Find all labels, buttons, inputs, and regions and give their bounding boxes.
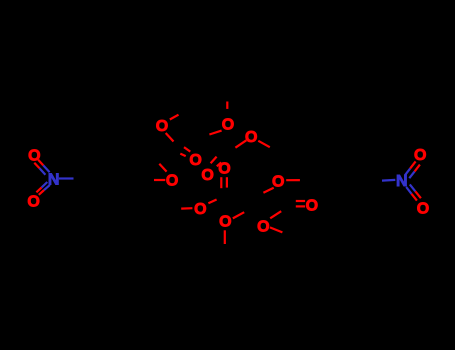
wire N1=O14 line2 blue half: [44, 185, 50, 190]
svg-text:O: O: [219, 214, 231, 231]
svg-text:O: O: [156, 118, 168, 135]
wire N1=O14 line1 blue half: [42, 182, 48, 187]
svg-text:N: N: [48, 172, 60, 189]
svg-text:O: O: [257, 218, 269, 235]
wire N2=O15 line1 blue half: [405, 168, 410, 175]
wire O1 up-right bond: [170, 115, 179, 120]
svg-text:O: O: [201, 167, 213, 184]
wire O3 down-right bond: [258, 141, 270, 147]
svg-text:O: O: [27, 194, 39, 211]
wire O10 up-right bond: [233, 212, 244, 218]
svg-text:O: O: [272, 173, 284, 190]
wire N2=O16 line1 blue half: [406, 187, 411, 194]
wire N2=O15 line2 red half: [415, 165, 420, 172]
wire O7 down-left bond: [263, 188, 273, 193]
svg-text:O: O: [28, 147, 40, 164]
svg-text:O: O: [414, 147, 426, 164]
wire O1 down-right bond: [166, 133, 174, 142]
svg-text:O: O: [166, 172, 178, 189]
wire O2 down-left bond: [209, 131, 221, 135]
wire C=O4 double bond line A: [184, 147, 190, 151]
wire O6 double bond vertical 2: [226, 177, 228, 187]
wire N1=O13 line2 red half: [34, 163, 39, 169]
wire N2=O15 line2 blue half: [409, 171, 414, 178]
wire O11 up-right bond: [270, 211, 281, 218]
wire N2=O16 line2 red half: [415, 191, 421, 198]
svg-text:O: O: [222, 116, 234, 133]
wire O3 down-left bond: [235, 140, 246, 147]
svg-text:N: N: [396, 173, 408, 190]
svg-text:O: O: [245, 129, 257, 146]
wire O8 up-left bond: [159, 164, 166, 172]
wire N1=O13 line1 red half: [38, 160, 43, 166]
wire O8 left bond: [154, 179, 165, 181]
wire O9 up-right bond: [208, 200, 216, 204]
wire O7 right bond: [286, 179, 300, 181]
wire C=O12 double bond bar 1: [296, 200, 305, 202]
wire N2=O16 line1 red half: [412, 194, 417, 201]
wire O6 double bond vertical 1: [220, 177, 222, 188]
svg-text:O: O: [417, 200, 429, 217]
wire O10 down bond: [224, 230, 226, 244]
wire N2=O15 line1 red half: [410, 161, 415, 168]
wire N1=O14 line2 red half: [39, 190, 44, 195]
svg-text:O: O: [189, 152, 201, 169]
wire N2=O16 line2 blue half: [410, 184, 416, 191]
wire C=O12 double bond bar 2: [296, 205, 305, 207]
wire N1-C bond: [59, 177, 74, 179]
wire O2 up bond: [226, 102, 228, 109]
wire O9 left bond: [181, 207, 192, 210]
wire N1=O13 line1 blue half: [43, 165, 49, 172]
wire C=O4 double bond line B: [180, 154, 185, 157]
svg-text:O: O: [306, 198, 318, 215]
wire N1=O14 line1 red half: [36, 187, 41, 192]
wire N1=O13 line2 blue half: [40, 168, 46, 174]
svg-text:O: O: [194, 201, 206, 218]
wire O5 slash2: [217, 162, 221, 166]
wire N2-C bond: [382, 179, 395, 182]
svg-text:O: O: [218, 161, 230, 178]
wire O5 slash1: [211, 157, 217, 164]
wire O11 down-right bond: [270, 227, 283, 232]
